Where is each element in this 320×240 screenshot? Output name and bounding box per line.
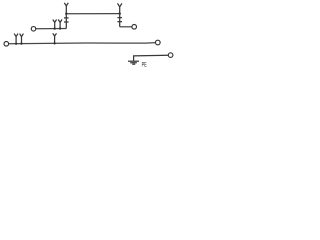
socket circle (right end of L3) — [155, 40, 160, 45]
wire L3 (bottom long bar) — [9, 43, 156, 44]
junction dot Y5 — [15, 43, 17, 45]
terminal clamp Y1 (left end of top bar) — [64, 3, 68, 14]
socket circle (left end of L2) — [31, 27, 36, 32]
socket circle (right end of PE wire) — [168, 53, 173, 58]
wire PE branch (elbow down to earth, then right) — [134, 55, 169, 61]
junction dot Y7 — [53, 42, 55, 44]
terminal clamp Y6 (on L3) — [20, 34, 24, 44]
terminal clamp Y4 (on L2) — [58, 20, 62, 29]
terminal clamp Y5 (on L3) — [14, 34, 18, 44]
link bridge right (vertical with two ticks, L1 down to socket) — [117, 14, 122, 27]
junction dot Y4 — [59, 27, 61, 29]
earth / ground symbol PE — [128, 61, 139, 64]
wire L2 (middle short bar) — [36, 28, 67, 30]
junction dot Y6 — [20, 43, 22, 45]
terminal clamp Y2 (right end of top bar) — [118, 3, 122, 13]
socket circle (right of top link) — [132, 25, 137, 30]
wire to right socket — [120, 26, 132, 28]
junction dot at Y2 base — [119, 12, 121, 14]
terminal clamp Y3 (on L2) — [53, 20, 57, 29]
junction dot at Y1 base — [65, 13, 67, 15]
socket circle (left end of L3) — [4, 42, 9, 47]
svg-text:PE: PE — [142, 62, 147, 68]
wire L1 (top bridge bar) — [66, 13, 119, 15]
link bridge left (vertical with two ticks, L1 to L2) — [64, 14, 69, 29]
terminal clamp Y7 (on L3) — [53, 33, 57, 43]
junction dot Y3 — [54, 27, 56, 29]
